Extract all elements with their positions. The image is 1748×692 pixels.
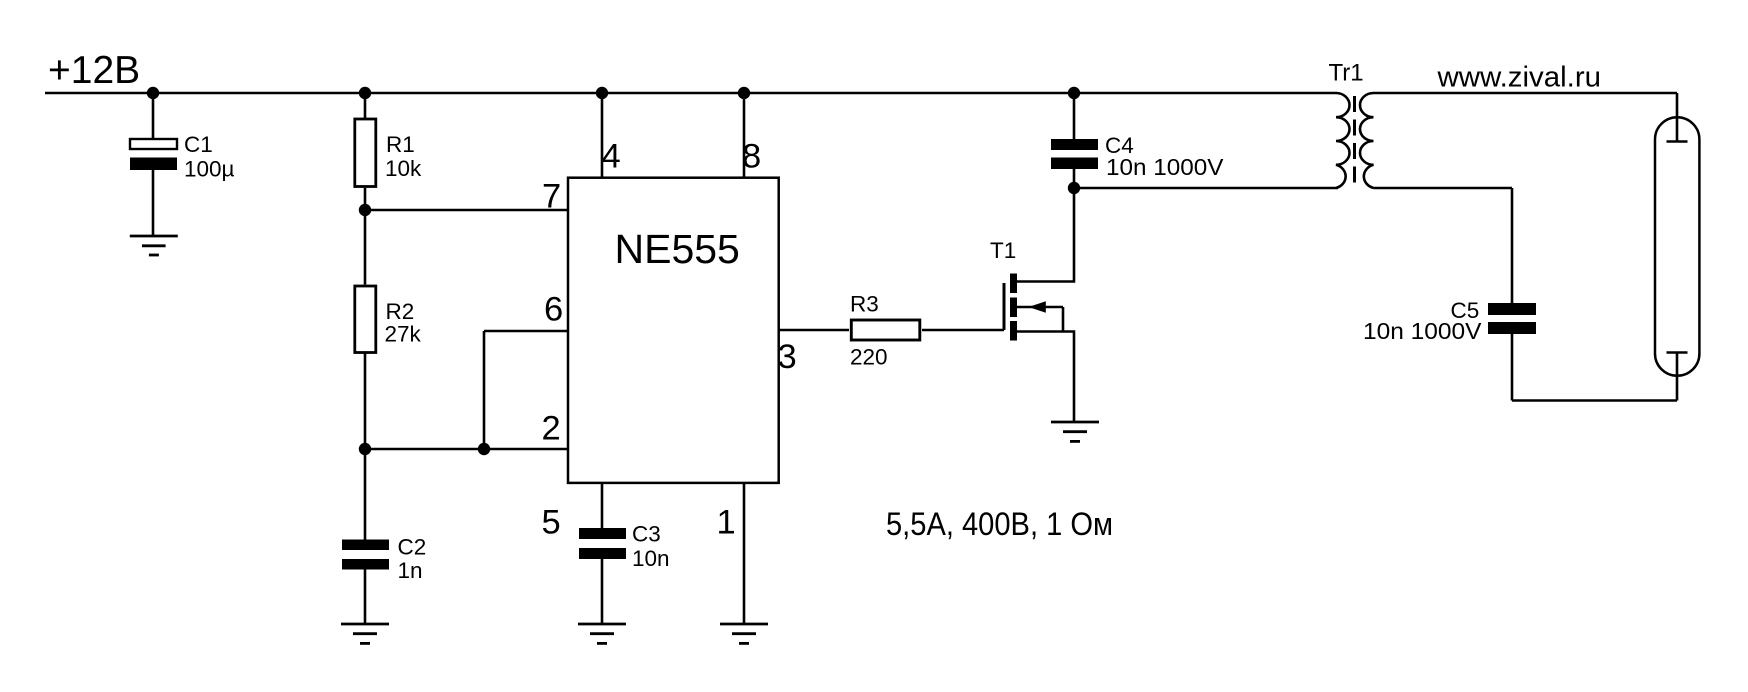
junction C4 bottom (1068, 182, 1080, 194)
svg-text:R1: R1 (386, 132, 415, 157)
transistor T1 (N-MOSFET) (1004, 274, 1063, 341)
svg-text:5: 5 (542, 504, 561, 542)
primary winding (1336, 93, 1350, 188)
resistor R2 (355, 286, 376, 353)
wire drain to transformer primary (1074, 187, 1338, 190)
resistor R3 (851, 320, 920, 340)
wire secondary top to lamp (1374, 92, 1678, 95)
wire pin 3 (779, 329, 849, 332)
svg-text:27k: 27k (385, 322, 422, 347)
IC U1 NE555 (568, 178, 779, 483)
wire +12V top rail (45, 92, 1336, 95)
wire C5 bottom lead (1511, 334, 1514, 401)
wire lamp bottom lead (1676, 353, 1679, 401)
channel bar source (1010, 321, 1017, 341)
svg-text:C3: C3 (632, 522, 661, 547)
lamp EL1 (tube) (1655, 117, 1699, 376)
junction pin8 tap (738, 87, 750, 99)
wire C2 bottom lead (364, 570, 367, 625)
core (1353, 96, 1356, 185)
svg-text:1: 1 (717, 504, 736, 542)
resistor R1 (355, 119, 376, 187)
channel bar drain (1010, 274, 1017, 294)
ground T1 source (1051, 422, 1099, 441)
wire pin 1 (743, 483, 746, 624)
wire C3 bottom lead (601, 559, 604, 624)
wire R1 top lead (364, 93, 367, 118)
ground C3 (578, 624, 626, 643)
junction C4 top (1068, 87, 1080, 99)
wire C4 top lead (1073, 93, 1076, 140)
capacitor C1 (130, 139, 177, 149)
svg-text:10k: 10k (385, 156, 422, 181)
svg-text:T1: T1 (990, 238, 1016, 263)
capacitor C4 (1051, 139, 1098, 150)
ground pin 1 (720, 624, 768, 643)
wire C1 bottom lead (152, 170, 155, 236)
junction pin7 node (359, 204, 371, 216)
junction pin2 node (359, 443, 371, 455)
ground C1 (130, 236, 178, 255)
wire pin6 riser (483, 331, 486, 449)
junction pin4 tap (596, 87, 608, 99)
svg-text:10n 1000V: 10n 1000V (1363, 318, 1482, 344)
junction R1 tap (359, 87, 371, 99)
capacitor C5 (1488, 303, 1536, 315)
svg-text:8: 8 (742, 138, 761, 176)
wire pin 2 (365, 448, 567, 451)
wire C4 bottom lead (1073, 169, 1076, 188)
svg-text:4: 4 (602, 138, 621, 176)
svg-text:R3: R3 (850, 292, 879, 317)
wire bottom return to lamp (1512, 399, 1677, 402)
bottom electrode (1667, 351, 1688, 354)
svg-text:+12В: +12В (48, 49, 140, 92)
svg-text:1n: 1n (398, 558, 423, 583)
wire C1 top lead (152, 93, 155, 140)
wire pin 5 (601, 483, 604, 528)
wire drain lead (1017, 188, 1074, 282)
wire source lead (1017, 332, 1074, 423)
wire secondary bottom (1374, 187, 1513, 190)
capacitor C3 (579, 528, 626, 539)
svg-text:Tr1: Tr1 (1329, 60, 1364, 87)
wire C5 top lead (1511, 188, 1514, 303)
body arrow (1017, 306, 1063, 309)
junction pin2/pin6 branch (478, 443, 490, 455)
wire pin 8 (743, 93, 746, 177)
wire lamp top lead (1676, 93, 1679, 142)
svg-text:5,5А, 400В, 1 Ом: 5,5А, 400В, 1 Ом (886, 506, 1113, 542)
secondary winding (1360, 93, 1374, 188)
wire pin 4 (601, 93, 604, 177)
svg-text:220: 220 (850, 345, 888, 370)
svg-text:NE555: NE555 (615, 226, 740, 272)
channel bar body (1010, 298, 1017, 318)
capacitor C2 (342, 540, 389, 551)
svg-text:100µ: 100µ (184, 157, 235, 182)
transformer Tr1 (1336, 93, 1374, 188)
svg-text:C2: C2 (398, 535, 427, 560)
svg-text:3: 3 (778, 338, 797, 376)
svg-text:R2: R2 (386, 299, 415, 324)
svg-text:2: 2 (542, 410, 561, 448)
svg-text:10n 1000V: 10n 1000V (1106, 154, 1224, 180)
wire pin 6 (484, 330, 567, 333)
svg-text:C1: C1 (184, 132, 213, 157)
svg-text:6: 6 (544, 291, 563, 329)
svg-text:10n: 10n (632, 546, 670, 571)
wire R3 to gate (922, 329, 1004, 332)
gate line (1003, 283, 1006, 330)
wire R1 to R2 (364, 188, 367, 285)
svg-text:7: 7 (542, 178, 561, 216)
wire R2 to C2 (364, 354, 367, 541)
ground C2 (341, 624, 389, 643)
wire pin 7 (365, 209, 567, 212)
top electrode (1667, 140, 1688, 143)
junction C1 tap (147, 87, 159, 99)
svg-text:www.zival.ru: www.zival.ru (1436, 62, 1601, 94)
